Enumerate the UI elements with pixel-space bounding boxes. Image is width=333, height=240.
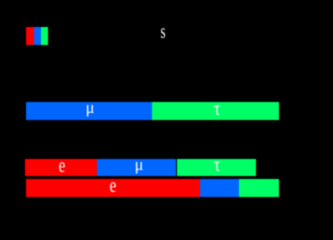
bar2 label mu: [134, 164, 143, 166]
bar3 label e: [110, 185, 117, 187]
legend swatch blue: [34, 27, 41, 45]
bar2 label e: [59, 165, 66, 167]
legend swatch green: [41, 27, 48, 45]
bar2 tau segment (green): [177, 159, 256, 177]
bar1 mu segment (blue): [26, 102, 153, 120]
bar3 tau segment (green): [239, 179, 279, 196]
bar2 label tau: [214, 164, 221, 166]
title s: [161, 31, 166, 33]
legend swatch red: [26, 27, 33, 45]
bar3 mu segment (blue): [200, 179, 239, 196]
bar1 label tau: [214, 108, 221, 110]
bar2 mu segment (blue): [97, 159, 176, 177]
bar2 e segment (red): [25, 159, 97, 177]
bar1 tau segment (green): [152, 102, 279, 120]
bar1 label mu: [86, 107, 95, 109]
bar3 e segment (red): [26, 179, 200, 196]
